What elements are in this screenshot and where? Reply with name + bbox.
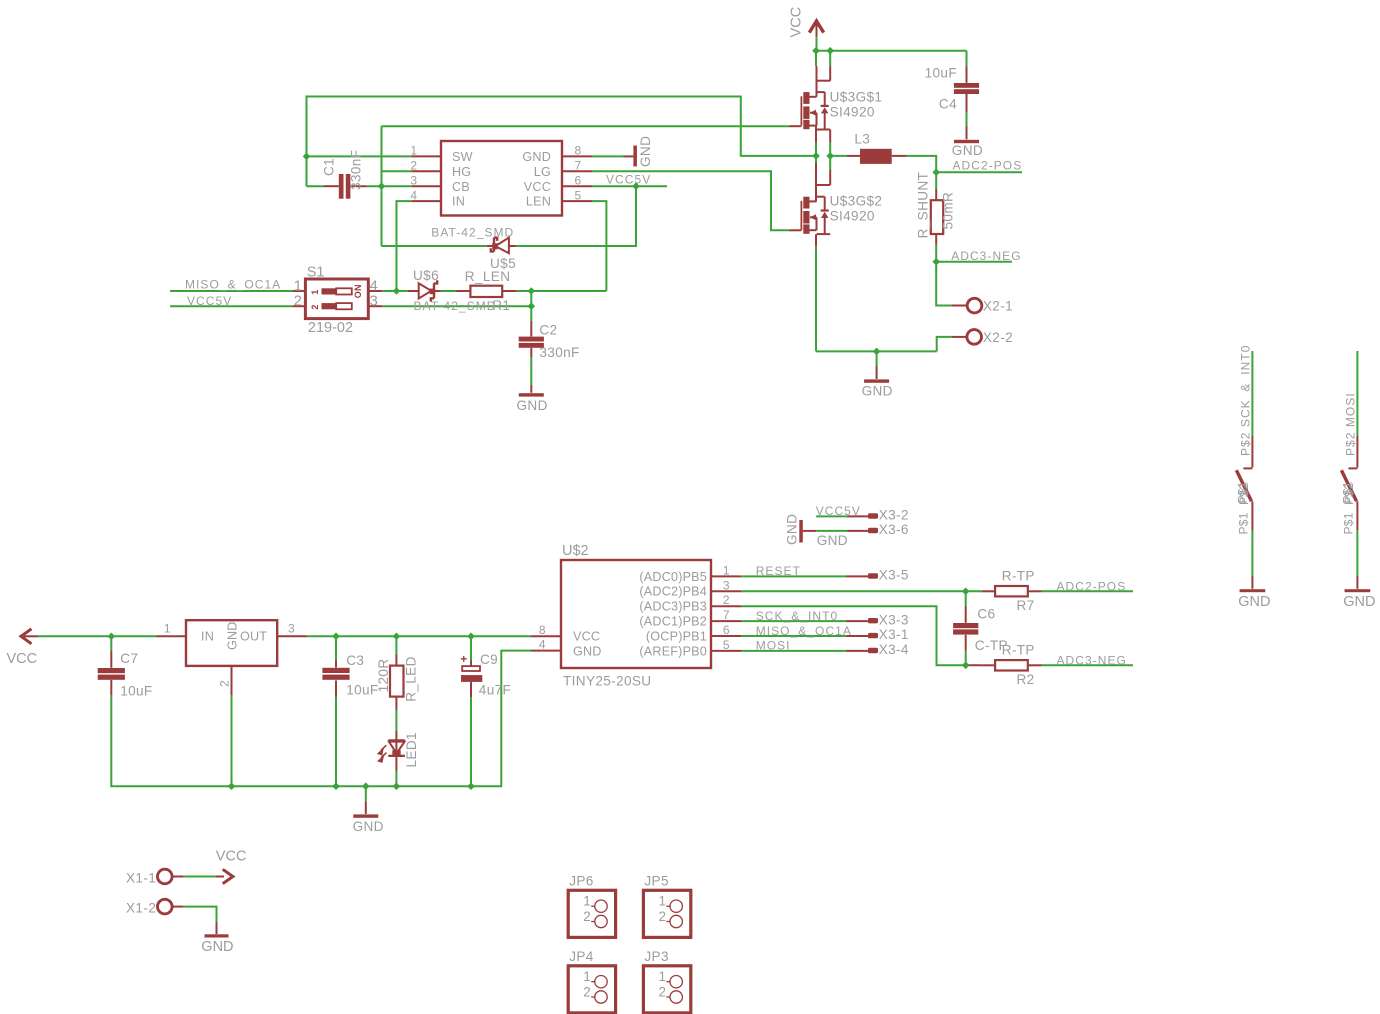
- svg-text:U$6: U$6: [413, 268, 439, 283]
- svg-text:BAT-42_SMD: BAT-42_SMD: [414, 299, 497, 313]
- svg-text:6: 6: [723, 623, 730, 637]
- svg-text:C4: C4: [939, 97, 957, 112]
- svg-text:3: 3: [410, 173, 417, 187]
- svg-text:LG: LG: [534, 165, 551, 179]
- svg-text:P$1: P$1: [1341, 481, 1355, 503]
- svg-text:(ADC3)PB3: (ADC3)PB3: [639, 600, 707, 614]
- svg-text:1: 1: [164, 622, 171, 636]
- svg-text:GND: GND: [353, 819, 384, 834]
- svg-text:3: 3: [288, 622, 295, 636]
- svg-text:X1-2: X1-2: [126, 901, 156, 916]
- svg-text:VCC: VCC: [216, 848, 247, 864]
- svg-text:10uF: 10uF: [120, 683, 152, 698]
- svg-text:C7: C7: [120, 651, 138, 666]
- svg-text:(ADC0)PB5: (ADC0)PB5: [639, 570, 707, 584]
- svg-text:ADC2-POS: ADC2-POS: [1057, 580, 1127, 594]
- svg-text:P$1: P$1: [1237, 512, 1251, 534]
- svg-text:GND: GND: [952, 143, 983, 158]
- svg-text:VCC: VCC: [788, 7, 804, 38]
- svg-text:330nF: 330nF: [539, 345, 579, 360]
- svg-text:120R: 120R: [376, 658, 391, 692]
- svg-text:X2-1: X2-1: [983, 299, 1013, 314]
- svg-text:X3-2: X3-2: [879, 508, 909, 523]
- svg-text:C1: C1: [322, 158, 337, 176]
- svg-text:GND: GND: [573, 644, 602, 658]
- svg-text:X3-3: X3-3: [879, 612, 909, 627]
- svg-text:SCK_&_INT0: SCK_&_INT0: [756, 609, 839, 623]
- svg-text:5: 5: [723, 638, 730, 652]
- svg-text:X3-6: X3-6: [879, 522, 909, 537]
- svg-text:1: 1: [583, 894, 591, 909]
- svg-text:SI4920: SI4920: [830, 208, 875, 223]
- svg-text:R7: R7: [1017, 598, 1035, 613]
- svg-text:ON: ON: [353, 284, 363, 298]
- svg-text:P$2 MOSI: P$2 MOSI: [1344, 392, 1358, 456]
- svg-text:(OCP)PB1: (OCP)PB1: [646, 629, 707, 643]
- svg-text:SW: SW: [452, 150, 473, 164]
- svg-text:X3-1: X3-1: [879, 627, 909, 642]
- svg-text:50mR: 50mR: [941, 192, 956, 230]
- svg-text:MISO_&_OC1A: MISO_&_OC1A: [185, 278, 281, 292]
- svg-text:VCC: VCC: [573, 629, 600, 643]
- svg-text:10uF: 10uF: [346, 683, 378, 698]
- svg-text:R_SHUNT: R_SHUNT: [916, 172, 931, 239]
- svg-text:10uF: 10uF: [925, 65, 957, 80]
- svg-text:R-TP: R-TP: [1002, 568, 1035, 583]
- svg-text:8: 8: [539, 623, 546, 637]
- svg-text:U$3G$1: U$3G$1: [830, 90, 883, 105]
- svg-text:ADC3-NEG: ADC3-NEG: [1057, 653, 1127, 667]
- svg-text:GND: GND: [817, 533, 848, 548]
- svg-text:U$3G$2: U$3G$2: [830, 194, 883, 209]
- svg-text:P$1: P$1: [1342, 512, 1356, 534]
- svg-text:2: 2: [723, 593, 730, 607]
- svg-text:7: 7: [575, 158, 582, 172]
- svg-text:VCC5V: VCC5V: [606, 173, 651, 187]
- svg-text:C3: C3: [346, 653, 364, 668]
- svg-text:3: 3: [723, 578, 730, 592]
- svg-text:GND: GND: [201, 939, 233, 955]
- svg-text:C6: C6: [977, 607, 995, 622]
- svg-text:LEN: LEN: [526, 195, 551, 209]
- svg-text:JP4: JP4: [569, 949, 594, 964]
- svg-text:8: 8: [575, 144, 582, 158]
- svg-text:VCC: VCC: [7, 651, 38, 667]
- svg-text:1: 1: [583, 969, 591, 984]
- svg-text:4: 4: [539, 638, 546, 652]
- svg-text:HG: HG: [452, 165, 471, 179]
- svg-text:C9: C9: [480, 652, 498, 667]
- svg-text:2: 2: [217, 680, 231, 687]
- svg-text:7: 7: [723, 608, 730, 622]
- svg-text:GND: GND: [1238, 594, 1270, 610]
- svg-text:1: 1: [723, 563, 730, 577]
- svg-text:VCC5V: VCC5V: [187, 294, 232, 308]
- svg-text:330nF: 330nF: [349, 150, 364, 190]
- svg-text:MISO_&_OC1A: MISO_&_OC1A: [756, 624, 852, 638]
- svg-text:1: 1: [658, 894, 666, 909]
- svg-text:R2: R2: [1017, 672, 1035, 687]
- svg-text:2: 2: [658, 985, 666, 1000]
- svg-text:6: 6: [575, 173, 582, 187]
- svg-text:IN: IN: [201, 630, 214, 644]
- svg-text:R1: R1: [492, 298, 510, 313]
- svg-text:VCC: VCC: [524, 180, 551, 194]
- svg-text:1: 1: [310, 290, 320, 295]
- svg-text:MOSI: MOSI: [756, 639, 791, 653]
- svg-text:4u7F: 4u7F: [479, 683, 511, 698]
- svg-text:BAT-42_SMD: BAT-42_SMD: [431, 225, 514, 239]
- svg-text:ADC3-NEG: ADC3-NEG: [951, 249, 1021, 263]
- svg-text:GND: GND: [785, 514, 800, 545]
- svg-text:2: 2: [583, 985, 591, 1000]
- svg-text:R_LED: R_LED: [404, 656, 419, 702]
- svg-text:JP3: JP3: [644, 949, 668, 964]
- svg-text:(ADC1)PB2: (ADC1)PB2: [639, 615, 707, 629]
- svg-text:GND: GND: [226, 621, 240, 650]
- svg-text:GND: GND: [862, 383, 893, 398]
- svg-text:2: 2: [583, 909, 591, 924]
- svg-text:X3-5: X3-5: [879, 568, 909, 583]
- svg-text:VCC5V: VCC5V: [816, 504, 861, 518]
- svg-text:GND: GND: [522, 150, 551, 164]
- svg-text:1: 1: [410, 144, 417, 158]
- svg-text:JP5: JP5: [644, 874, 668, 889]
- svg-text:S1: S1: [307, 264, 325, 280]
- svg-text:IN: IN: [452, 195, 465, 209]
- svg-text:R-TP: R-TP: [1002, 642, 1035, 657]
- svg-text:2: 2: [294, 293, 302, 310]
- svg-text:SI4920: SI4920: [830, 105, 875, 120]
- svg-text:5: 5: [575, 188, 582, 202]
- svg-text:(ADC2)PB4: (ADC2)PB4: [639, 585, 707, 599]
- svg-text:GND: GND: [638, 136, 653, 167]
- svg-text:+: +: [460, 652, 467, 666]
- svg-text:X2-2: X2-2: [983, 330, 1013, 345]
- svg-text:X3-4: X3-4: [879, 642, 909, 657]
- svg-text:JP6: JP6: [569, 874, 593, 889]
- svg-text:C2: C2: [539, 323, 557, 338]
- svg-text:U$2: U$2: [562, 543, 589, 559]
- svg-text:2: 2: [658, 909, 666, 924]
- svg-text:X1-1: X1-1: [126, 871, 156, 886]
- svg-text:(AREF)PB0: (AREF)PB0: [639, 644, 707, 658]
- svg-text:GND: GND: [1343, 594, 1375, 610]
- svg-text:GND: GND: [517, 398, 548, 413]
- svg-text:P$2 SCK_&_INT0: P$2 SCK_&_INT0: [1239, 345, 1253, 456]
- svg-text:RESET: RESET: [756, 564, 801, 578]
- svg-text:ADC2-POS: ADC2-POS: [953, 158, 1023, 172]
- svg-text:R_LEN: R_LEN: [465, 269, 511, 284]
- svg-text:L3: L3: [854, 131, 870, 146]
- svg-text:OUT: OUT: [240, 630, 267, 644]
- svg-text:CB: CB: [452, 180, 470, 194]
- svg-text:1: 1: [658, 969, 666, 984]
- svg-text:4: 4: [410, 188, 417, 202]
- svg-text:219-02: 219-02: [308, 320, 353, 336]
- svg-text:3: 3: [370, 293, 378, 310]
- svg-text:2: 2: [410, 158, 417, 172]
- svg-text:P$1: P$1: [1236, 481, 1250, 503]
- svg-text:TINY25-20SU: TINY25-20SU: [563, 673, 651, 688]
- svg-text:LED1: LED1: [404, 732, 419, 767]
- svg-text:2: 2: [310, 304, 320, 309]
